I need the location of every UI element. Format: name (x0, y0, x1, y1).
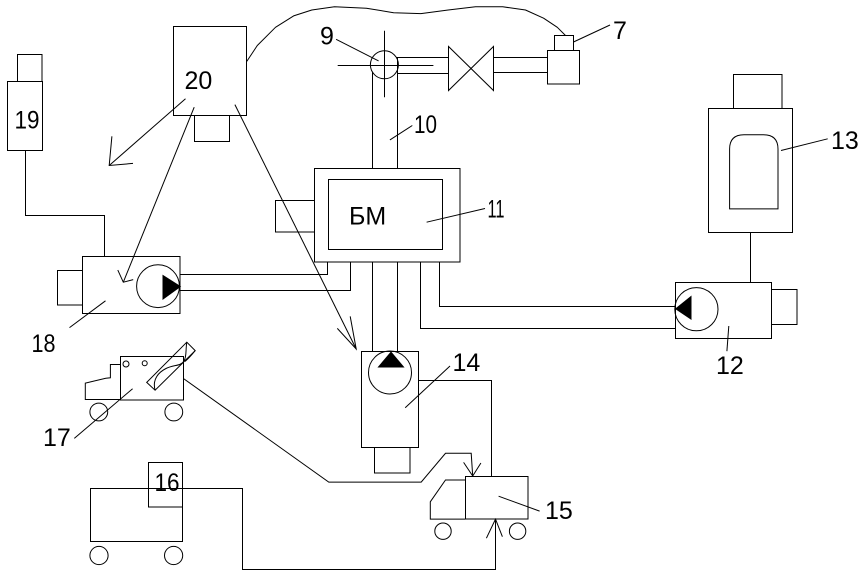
label 14 (405, 349, 480, 408)
arrow head into truck 15 bottom (486, 519, 502, 538)
hose from 20 to 7 (247, 7, 566, 62)
pump 14 (362, 351, 419, 473)
svg-text:19: 19 (15, 107, 40, 135)
svg-text:9: 9 (320, 23, 334, 51)
label 13 (781, 127, 858, 155)
pipe BM to pump 14 (373, 262, 398, 352)
pipe BM to pump 18 lower (180, 262, 351, 291)
label 17 (43, 389, 133, 452)
wire 13 to pump 12 (750, 233, 752, 283)
svg-text:17: 17 (43, 424, 71, 452)
svg-text:10: 10 (414, 111, 437, 139)
svg-text:7: 7 (613, 17, 627, 45)
pipe from 9 to valve (397, 58, 449, 74)
label 9 (320, 23, 379, 61)
wire truck 17 to truck 15 (183, 379, 472, 483)
svg-text:БМ: БМ (349, 203, 386, 231)
svg-text:13: 13 (831, 127, 858, 155)
svg-text:20: 20 (185, 67, 213, 95)
arrow A from 20 (109, 99, 185, 166)
arrow B from 20 to pump 18 (118, 107, 194, 282)
svg-text:15: 15 (545, 497, 573, 525)
wire 16 to truck 15 (183, 489, 496, 570)
wire pump 14 to truck 15 (419, 381, 492, 477)
svg-text:11: 11 (488, 196, 505, 224)
label 10 (390, 111, 437, 140)
pipe BM to pump 12 lower (421, 262, 676, 329)
control unit 20 (174, 27, 247, 142)
pump 12 (675, 283, 797, 339)
mixing unit BM 11 (276, 169, 461, 263)
label 15 (499, 496, 573, 525)
pipe from valve to 7 (494, 58, 548, 73)
wire 19 to pump 18 (26, 151, 105, 257)
label 18 (32, 301, 106, 358)
svg-text:18: 18 (32, 330, 56, 358)
label 7 (574, 17, 627, 45)
svg-text:16: 16 (155, 469, 180, 497)
box 7 (548, 36, 580, 85)
trailer 16 (90, 463, 183, 565)
truck 15 (430, 477, 528, 540)
pipe BM to pump 18 upper (180, 262, 328, 275)
pump 18 (58, 257, 181, 314)
sensor 9 (338, 31, 434, 97)
pipe 10 (373, 58, 398, 169)
svg-text:12: 12 (716, 352, 744, 380)
label 12 (716, 326, 744, 380)
truck 17 (85, 342, 195, 421)
arrow C from 20 to pump 14 (235, 105, 356, 349)
svg-text:14: 14 (453, 349, 481, 377)
valve (449, 47, 494, 91)
sensor 19 (8, 55, 43, 151)
tank 13 (709, 75, 793, 233)
label 11 (427, 196, 505, 224)
pipe BM to pump 12 upper (440, 262, 676, 307)
arrow head into truck 15 top (464, 462, 481, 476)
